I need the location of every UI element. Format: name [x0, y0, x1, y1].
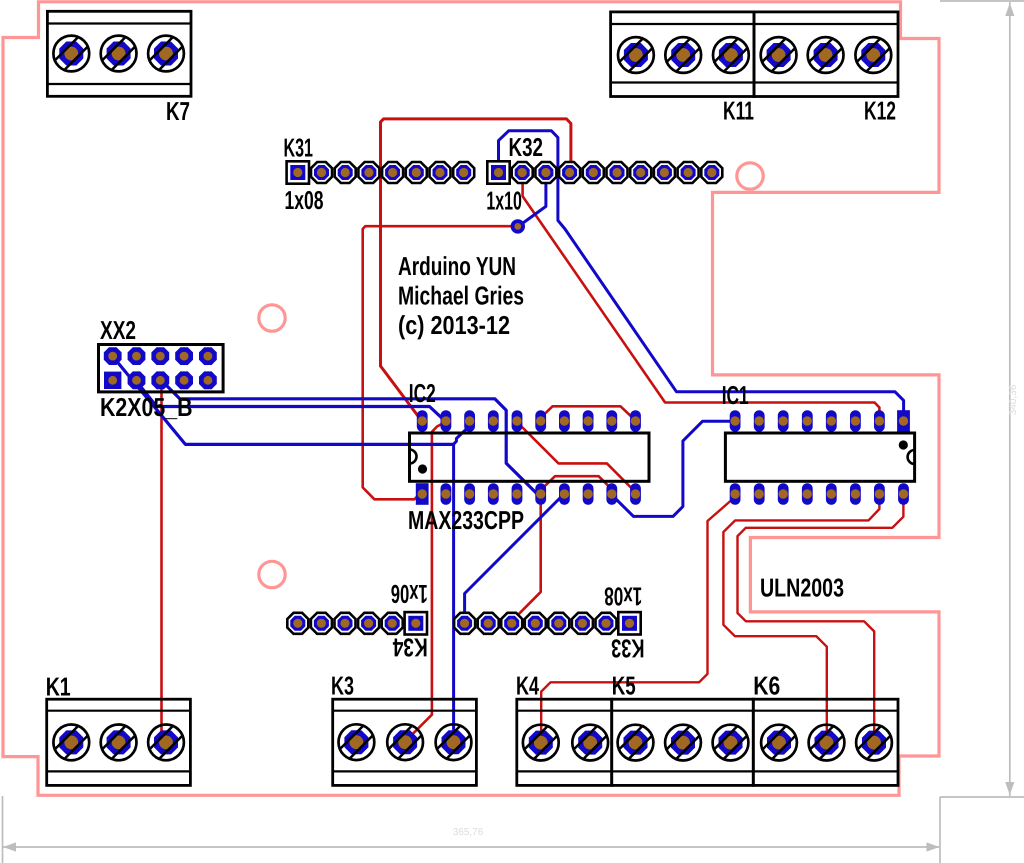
svg-text:K31: K31: [284, 133, 314, 163]
wire blue: K32 pin3 to via: [520, 174, 546, 226]
svg-text:365,76: 365,76: [453, 827, 484, 838]
svg-text:1x10: 1x10: [486, 186, 522, 216]
wire blue: XX2 pin2-bottom row to IC2 pin2-top (H2): [137, 382, 445, 421]
pin header K33 1x08 (rotated 180): [454, 582, 644, 664]
wire red: via to IC2 pin1-bottom (left loop): [363, 226, 516, 499]
transistor-array IC1 ULN2003 DIP-16: [722, 380, 915, 603]
svg-text:Michael Gries: Michael Gries: [398, 281, 524, 311]
svg-text:Arduino YUN: Arduino YUN: [398, 251, 516, 281]
svg-text:1x06: 1x06: [391, 579, 428, 609]
wire blue: IC2 pin9-bottom to IC1 pin1-top: [612, 421, 734, 516]
hole H3: [259, 561, 285, 587]
terminal block K3: [331, 671, 476, 786]
svg-text:340,36: 340,36: [1008, 384, 1019, 415]
wire red: K32 pin4 to IC2 pin1 top loop: [381, 119, 571, 366]
wire red: IC2 pin5-top to pin10-bottom: [517, 422, 635, 492]
svg-text:K34: K34: [392, 633, 427, 663]
wire blue: XX2 pin1-top row to IC2 pin3-top and K3 pin3 (H3): [113, 357, 453, 444]
hole H2: [737, 163, 763, 189]
wire red: IC2 pin2-top to K3 pin2: [406, 422, 446, 741]
wire red: IC2 pin6-top to pin10-top arc: [541, 406, 636, 420]
svg-text:K4: K4: [516, 671, 539, 701]
wire red: IC1 pin8-bottom to K6 pin3: [738, 494, 904, 742]
connector XX2 K2X05_B: [99, 315, 224, 422]
svg-text:(c) 2013-12: (c) 2013-12: [398, 310, 510, 340]
svg-text:K3: K3: [331, 671, 354, 701]
dimension line right: [940, 1, 1024, 796]
terminal block K6: [753, 671, 898, 786]
terminal block K5: [612, 671, 754, 786]
svg-text:ULN2003: ULN2003: [760, 573, 844, 603]
svg-text:K1: K1: [46, 672, 71, 702]
wire red: IC1 pin7-bottom to K6 pin2: [723, 494, 879, 742]
wire red: IC2 pin6-bottom to pin9-bottom bump: [541, 476, 612, 492]
wire red: K32 pin2 to IC1 pin7-top: [523, 174, 880, 420]
svg-text:1x08: 1x08: [285, 185, 324, 215]
svg-text:K6: K6: [753, 671, 780, 701]
pin header K32 1x10: [486, 132, 722, 216]
svg-text:K7: K7: [166, 96, 190, 126]
pin header K34 1x06 (rotated 180): [287, 579, 427, 663]
wire red: XX2 pin3-bottom to K1 pin3: [160, 381, 163, 742]
svg-text:K11: K11: [723, 96, 754, 126]
svg-text:IC1: IC1: [722, 380, 749, 410]
terminal block K11: [611, 12, 754, 126]
op-amp IC2 MAX233CPP DIP-20: [408, 378, 649, 535]
svg-text:XX2: XX2: [100, 315, 136, 345]
svg-text:K33: K33: [611, 634, 645, 664]
pin header K31 1x08: [284, 133, 475, 216]
via V1: [511, 219, 525, 233]
terminal block K4: [516, 671, 612, 786]
terminal block K7: [47, 11, 191, 126]
wire blue: K32 pin1 to IC1 pin8-top: [499, 131, 904, 415]
wire blue: K33 pin1 to IC2 pin7-bottom: [465, 494, 565, 624]
svg-text:K5: K5: [612, 671, 636, 701]
wire blue: K3 pin3 riser: [452, 444, 455, 741]
svg-text:K2X05_B: K2X05_B: [100, 392, 193, 422]
terminal block K12: [754, 12, 898, 126]
hole H1: [259, 305, 285, 331]
terminal block K1: [46, 672, 191, 786]
wire red: IC2 pin1-top diagonal: [381, 366, 422, 420]
text Arduino YUN attribution: [398, 251, 524, 340]
dimension frame corner lines: [3, 796, 1024, 863]
svg-text:K12: K12: [864, 96, 896, 126]
svg-text:1x08: 1x08: [604, 582, 642, 612]
svg-text:MAX233CPP: MAX233CPP: [408, 505, 524, 535]
svg-text:K32: K32: [509, 132, 544, 162]
dimension line bottom: [3, 827, 940, 852]
wire red: IC1 pin1-bottom to K4 pin1: [541, 494, 734, 743]
wire red: IC2 pin6-bottom to K33 pin3: [512, 495, 541, 624]
wire blue: XX2 pin3-bottom row to IC2 pin6-bottom (H1): [162, 381, 540, 494]
svg-text:IC2: IC2: [409, 378, 436, 408]
